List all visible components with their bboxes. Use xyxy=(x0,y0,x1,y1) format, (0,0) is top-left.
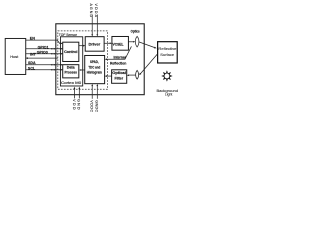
top pin VDDA xyxy=(94,3,98,36)
top pin AGND xyxy=(89,3,93,36)
Background light sun xyxy=(161,70,172,81)
svg-text:Data: Data xyxy=(67,65,76,69)
svg-text:Optical: Optical xyxy=(112,71,126,75)
return ray to RX lens xyxy=(140,54,157,74)
SDA wire xyxy=(26,64,63,66)
Control to Driver arrow xyxy=(79,45,83,47)
svg-text:Histogram: Histogram xyxy=(87,70,102,74)
svg-text:Cortex M0: Cortex M0 xyxy=(61,81,81,85)
TX ray to reflective surface xyxy=(139,42,155,48)
svg-text:Driver: Driver xyxy=(88,42,100,46)
Driver box xyxy=(85,37,104,52)
svg-text:Process: Process xyxy=(64,70,77,74)
Cortex M0 container xyxy=(60,37,82,86)
SCL wire xyxy=(26,69,63,71)
bottom pin VDD xyxy=(72,87,76,110)
svg-text:Host: Host xyxy=(10,54,19,59)
VCSEL to TX lens arrow xyxy=(128,41,133,43)
internal reflection path xyxy=(107,46,132,59)
svg-text:SPAD,: SPAD, xyxy=(90,60,99,64)
svg-text:GNDC: GNDC xyxy=(95,100,99,112)
svg-text:Internal: Internal xyxy=(114,55,126,59)
GPIO0 wire xyxy=(26,53,63,55)
svg-text:TOF Sensor: TOF Sensor xyxy=(59,33,78,37)
RX lens to Optical Filter arrow xyxy=(129,74,136,76)
svg-text:Reflection: Reflection xyxy=(110,61,126,65)
svg-text:Control: Control xyxy=(64,50,77,54)
INT wire xyxy=(26,57,58,59)
svg-text:Reflective: Reflective xyxy=(158,47,176,51)
RX lens xyxy=(136,70,139,79)
svg-text:VDDC: VDDC xyxy=(90,100,94,112)
SPAD to Data arrow xyxy=(81,69,85,71)
svg-text:Filter: Filter xyxy=(115,76,124,80)
svg-text:Light: Light xyxy=(165,93,173,97)
svg-text:VCSEL: VCSEL xyxy=(113,42,125,46)
bottom pin GNDC xyxy=(95,84,99,113)
bottom pin VDDC xyxy=(90,84,94,113)
GPIO1 wire xyxy=(26,48,63,50)
module boundary (optical module) xyxy=(56,24,144,95)
Data Process box xyxy=(63,65,79,78)
svg-text:Optics: Optics xyxy=(131,30,140,34)
svg-text:TDC and: TDC and xyxy=(88,65,100,69)
VCSEL box xyxy=(112,36,129,50)
TX lens xyxy=(135,36,139,47)
Driver to VCSEL arrow xyxy=(104,42,110,44)
svg-text:GND: GND xyxy=(77,99,81,110)
TOF Sensor dashed box xyxy=(58,31,108,89)
EN wire xyxy=(26,40,61,43)
Control box xyxy=(63,42,79,61)
svg-text:INT: INT xyxy=(30,53,37,57)
svg-text:VDD: VDD xyxy=(72,99,76,110)
Host box xyxy=(5,38,26,74)
Optical Filter to SPAD arrow xyxy=(107,75,112,77)
Optical Filter box xyxy=(112,70,127,84)
SPAD TDC Histogram box xyxy=(85,55,105,83)
bottom pin GND xyxy=(77,87,81,110)
Reflective Surface box xyxy=(158,42,178,63)
svg-text:Surface: Surface xyxy=(160,53,174,57)
